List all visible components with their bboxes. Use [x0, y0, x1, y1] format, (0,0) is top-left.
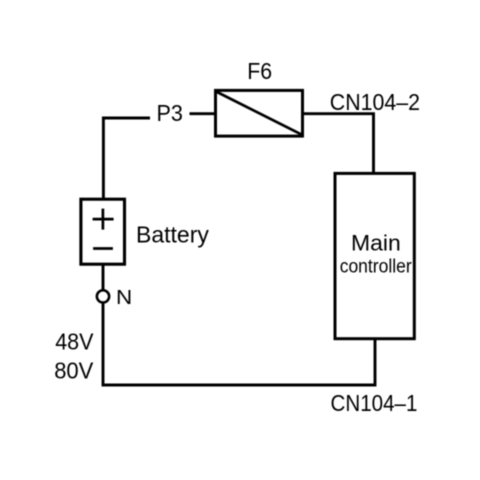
- svg-text:F6: F6: [247, 58, 272, 84]
- svg-text:80V: 80V: [54, 357, 94, 383]
- svg-text:Main: Main: [351, 230, 401, 255]
- svg-text:Battery: Battery: [136, 221, 209, 247]
- svg-text:controller: controller: [340, 256, 413, 277]
- svg-text:P3: P3: [157, 100, 183, 126]
- svg-text:48V: 48V: [55, 329, 94, 355]
- svg-text:N: N: [116, 287, 132, 309]
- svg-text:CN104–1: CN104–1: [331, 390, 418, 416]
- svg-text:CN104–2: CN104–2: [330, 89, 420, 115]
